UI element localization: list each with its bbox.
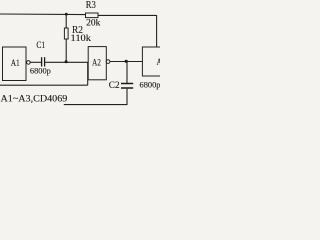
svg-text:20k: 20k bbox=[86, 18, 101, 28]
wire R2 upper lead bbox=[65, 14, 67, 28]
node X bbox=[65, 60, 68, 63]
resistor R3 bbox=[86, 13, 99, 18]
svg-text:A1~A3,CD4069: A1~A3,CD4069 bbox=[1, 94, 68, 105]
op-amp A3 bbox=[142, 47, 164, 76]
wire C2 lower lead bbox=[126, 89, 128, 105]
svg-text:A3: A3 bbox=[157, 58, 161, 68]
svg-text:A2: A2 bbox=[92, 58, 101, 68]
wire right drop bbox=[156, 15, 158, 47]
wire top rail right bbox=[98, 14, 156, 16]
capacitor C1 bbox=[41, 57, 43, 66]
wire C1 to A2 bbox=[45, 61, 88, 63]
wire top rail left bbox=[0, 13, 86, 16]
capacitor C2 bbox=[126, 61, 128, 83]
wire A1 out bbox=[30, 61, 41, 63]
wire A2 out bbox=[110, 61, 142, 63]
svg-text:C2: C2 bbox=[109, 81, 120, 91]
node top junction bbox=[65, 13, 68, 16]
wire feedback horizontal bbox=[0, 84, 88, 86]
resistor R2 bbox=[64, 28, 68, 39]
svg-text:C1: C1 bbox=[36, 41, 45, 51]
wire bottom bbox=[64, 104, 128, 106]
svg-text:6800p: 6800p bbox=[140, 79, 161, 89]
op-amp A1 bbox=[3, 47, 27, 81]
node B bbox=[125, 60, 128, 63]
svg-text:6800p: 6800p bbox=[30, 66, 52, 76]
svg-text:R3: R3 bbox=[86, 0, 96, 11]
wire R2 lower lead bbox=[65, 39, 67, 62]
wire feedback vertical bbox=[87, 62, 89, 85]
svg-text:A1: A1 bbox=[11, 59, 20, 69]
svg-text:110k: 110k bbox=[71, 33, 92, 43]
op-amp A2 bbox=[88, 47, 106, 80]
